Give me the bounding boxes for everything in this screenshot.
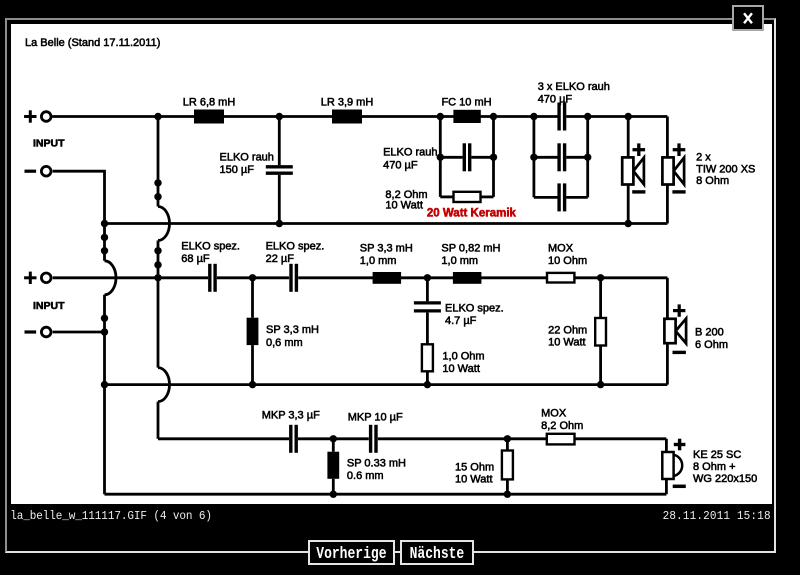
svg-text:MKP 10 µF: MKP 10 µF	[348, 412, 403, 424]
svg-text:LR 6,8 mH: LR 6,8 mH	[183, 97, 236, 109]
plus sign input2	[24, 272, 36, 284]
button Vorherige	[308, 540, 395, 566]
wire rail3 seg2	[217, 276, 289, 279]
wire 3xELKO mid branch right	[566, 156, 588, 159]
wire TIW1 top lead	[627, 117, 630, 158]
svg-text:SP 0,82 mH: SP 0,82 mH	[441, 243, 500, 255]
wire input2 plus to bus B	[53, 276, 158, 279]
capacitor ELKO spez 22uF	[291, 264, 296, 292]
junction rail2	[276, 220, 283, 227]
inductor SP 0,82 mH 1,0 mm	[453, 272, 482, 284]
capacitor ELKO spez 4.7uF	[414, 303, 441, 311]
minus sign TIW1	[632, 190, 645, 193]
wire input2 minus lead	[53, 331, 105, 334]
inductor LR 6,8 mH	[194, 110, 224, 124]
connector bus A	[101, 315, 108, 322]
svg-text:ELKO spez.: ELKO spez.	[445, 303, 504, 315]
capacitor 3xELKO bottom	[559, 183, 565, 211]
capacitor MKP 3,3uF	[291, 425, 296, 453]
junction rail3	[154, 274, 161, 281]
svg-text:FC 10 mH: FC 10 mH	[441, 97, 491, 109]
plus sign input1	[24, 110, 36, 122]
connector bus A	[101, 234, 108, 241]
wire rail1 right of 3xELKO cap	[566, 115, 667, 118]
speaker TIW1	[622, 157, 644, 184]
junction rail5	[330, 435, 337, 442]
junction rail4	[101, 381, 108, 388]
wire rail5 seg1	[158, 437, 289, 440]
wire FC right loop	[492, 117, 495, 197]
plus sign B200	[673, 304, 685, 316]
wire 3xELKO left rail	[533, 117, 536, 198]
svg-text:ELKO spez.: ELKO spez.	[266, 241, 325, 253]
wire bus A lower	[103, 295, 106, 494]
svg-text:6 Ohm: 6 Ohm	[695, 339, 728, 351]
junction rail4	[249, 381, 256, 388]
junction rail1	[530, 113, 537, 120]
wire 3xELKO bottom branch left	[534, 196, 558, 199]
wire 15ohm top lead	[506, 439, 509, 451]
connector bus B	[154, 179, 161, 186]
inductor SP 0.33 mH 0.6 mm	[327, 452, 339, 479]
wire TIW2 bottom lead	[666, 185, 669, 224]
junction rail2	[625, 220, 632, 227]
junction rail1	[154, 113, 161, 120]
wire 15ohm bottom lead	[506, 479, 509, 494]
wire bus B to rail5	[157, 402, 160, 439]
wire input1 minus to bus A	[53, 171, 105, 261]
wire B200 top lead	[666, 278, 669, 319]
svg-text:1,0 Ohm: 1,0 Ohm	[442, 351, 484, 363]
svg-text:INPUT: INPUT	[33, 138, 65, 150]
caption filename	[10, 511, 212, 523]
wire KE top lead	[665, 439, 668, 452]
svg-text:0,6 mm: 0,6 mm	[266, 337, 303, 349]
junction rail3	[424, 274, 431, 281]
resistor 1,0 Ohm 10 Watt	[422, 344, 433, 371]
svg-text:10 Watt: 10 Watt	[548, 337, 586, 349]
capacitor 3xELKO top	[559, 103, 565, 131]
minus sign input1	[25, 170, 37, 173]
plus sign TIW2	[673, 143, 686, 156]
resistor MOX 8,2 Ohm	[547, 434, 575, 445]
capacitor ELKO rauh 150uF	[266, 167, 293, 173]
junction mid branch	[490, 154, 497, 161]
wire 3xELKO right rail	[586, 117, 589, 198]
capacitor 3xELKO mid	[559, 143, 565, 171]
svg-text:SP 3,3 mH: SP 3,3 mH	[360, 243, 413, 255]
svg-text:ELKO spez.: ELKO spez.	[181, 241, 240, 253]
svg-text:22 Ohm: 22 Ohm	[548, 325, 587, 337]
junction rail1	[276, 113, 283, 120]
junction rail6	[504, 491, 511, 498]
wire 3xELKO bottom branch right	[566, 196, 588, 199]
wire 22ohm top lead	[599, 278, 602, 318]
wire ELKO150 branch top	[278, 117, 281, 166]
wire bus B upper	[157, 117, 160, 207]
connector bus B	[154, 261, 161, 268]
wire FC resistor branch left	[440, 195, 453, 198]
junction mid branch	[530, 154, 537, 161]
speaker B200	[664, 319, 686, 344]
wire rail4	[105, 383, 668, 386]
resistor MOX 10 Ohm	[547, 273, 574, 283]
wire KE bottom lead	[665, 479, 668, 494]
svg-text:MOX: MOX	[541, 408, 567, 420]
svg-text:10 Watt: 10 Watt	[442, 363, 480, 375]
svg-text:8,2 Ohm: 8,2 Ohm	[541, 420, 583, 432]
minus sign KE	[673, 485, 686, 489]
capacitor ELKO rauh 470uF	[464, 143, 469, 171]
wire rail6	[105, 493, 667, 496]
wire SP33-06 top lead	[251, 278, 254, 318]
svg-text:KE 25 SC: KE 25 SC	[693, 449, 741, 461]
terminal input2 plus	[41, 273, 51, 283]
junction rail3	[597, 274, 604, 281]
junction input2 minus	[101, 328, 108, 335]
wire FC left loop	[439, 117, 442, 197]
junction rail4	[597, 381, 604, 388]
svg-text:22 µF: 22 µF	[266, 253, 295, 265]
timestamp	[663, 511, 771, 523]
junction mid branch	[437, 154, 444, 161]
svg-text:1,0 mm: 1,0 mm	[441, 255, 478, 267]
wire TIW1 bottom lead	[627, 185, 630, 224]
junction rail6	[330, 491, 337, 498]
svg-text:470 µF: 470 µF	[383, 160, 418, 172]
wire B200 bottom lead	[666, 343, 669, 384]
minus sign B200	[673, 351, 686, 354]
junction rail3	[249, 274, 256, 281]
tweeter KE 25 SC	[662, 452, 682, 479]
svg-text:TIW 200 XS: TIW 200 XS	[696, 163, 755, 175]
wire SP033 bottom lead	[332, 479, 335, 494]
connector bus A	[101, 247, 108, 254]
junction rail1	[490, 113, 497, 120]
inductor SP 3,3 mH 1,0 mm	[373, 272, 402, 284]
close button X	[732, 5, 764, 31]
svg-text:ELKO rauh: ELKO rauh	[220, 152, 274, 164]
minus sign input2	[25, 330, 37, 333]
wire 3xELKO mid branch left	[534, 156, 558, 159]
svg-text:0.6 mm: 0.6 mm	[347, 470, 384, 482]
svg-text:470 µF: 470 µF	[538, 94, 573, 106]
svg-text:INPUT: INPUT	[33, 300, 65, 312]
svg-text:8 Ohm: 8 Ohm	[696, 175, 729, 187]
resistor 22 Ohm 10 Watt	[595, 318, 606, 346]
wire rail2	[105, 222, 668, 225]
junction rail5	[504, 435, 511, 442]
wire FC cap branch left	[440, 156, 462, 159]
inductor LR 3,9 mH	[332, 110, 362, 124]
svg-text:10 Watt: 10 Watt	[455, 474, 493, 486]
svg-text:4.7 µF: 4.7 µF	[445, 315, 477, 327]
svg-text:8 Ohm +: 8 Ohm +	[693, 461, 736, 473]
minus sign TIW2	[672, 190, 685, 193]
wire ELKO47 to 1ohm	[426, 313, 429, 345]
wire hop bus B over rail2	[158, 207, 170, 241]
wire 1ohm bottom lead	[426, 371, 429, 384]
wire ELKO150 branch bottom	[278, 175, 281, 224]
wire bus B middle	[157, 241, 160, 368]
svg-text:ELKO rauh: ELKO rauh	[383, 147, 437, 159]
wire hop bus A over rail3	[105, 261, 116, 295]
junction mid branch	[584, 154, 591, 161]
terminal input1 plus	[41, 112, 51, 122]
svg-text:3 x ELKO rauh: 3 x ELKO rauh	[538, 81, 610, 93]
wire rail1 input+ to 3xELKO	[52, 115, 557, 118]
wire 22ohm bottom lead	[599, 346, 602, 385]
junction rail1	[584, 113, 591, 120]
svg-text:150 µF: 150 µF	[220, 164, 255, 176]
capacitor ELKO spez 68uF	[210, 264, 215, 292]
wire ELKO47 top lead	[426, 278, 429, 302]
svg-text:B 200: B 200	[695, 327, 724, 339]
inductor SP 3,3 mH 0,6 mm	[247, 318, 259, 345]
terminal input2 minus	[41, 327, 51, 337]
resistor 15 Ohm 10 Watt	[502, 451, 513, 480]
wire SP33-06 bottom lead	[251, 345, 254, 385]
resistor 8,2 Ohm 10 Watt	[454, 192, 481, 202]
svg-text:SP 0.33 mH: SP 0.33 mH	[347, 458, 406, 470]
svg-text:La Belle (Stand 17.11.2011): La Belle (Stand 17.11.2011)	[25, 37, 160, 49]
svg-text:SP 3,3 mH: SP 3,3 mH	[266, 324, 319, 336]
junction rail2	[101, 220, 108, 227]
junction rail1	[625, 113, 632, 120]
svg-text:68 µF: 68 µF	[181, 253, 210, 265]
svg-text:1,0 mm: 1,0 mm	[360, 255, 397, 267]
plus sign TIW1	[633, 143, 646, 156]
wire rail3 seg1	[158, 276, 208, 279]
wire rail3 seg3	[298, 276, 667, 279]
wire rail5 seg2	[298, 437, 369, 440]
inductor FC 10 mH	[453, 110, 480, 123]
wire TIW2 top lead	[666, 117, 669, 158]
terminal input1 minus	[41, 166, 51, 176]
junction rail4	[424, 381, 431, 388]
svg-text:MOX: MOX	[548, 243, 574, 255]
button Naechste	[400, 540, 474, 566]
svg-text:LR 3,9 mH: LR 3,9 mH	[321, 97, 374, 109]
junction rail1	[437, 113, 444, 120]
svg-text:WG 220x150: WG 220x150	[693, 473, 757, 485]
svg-text:2 x: 2 x	[696, 152, 711, 164]
wire FC resistor branch right	[481, 195, 494, 198]
speaker TIW2	[662, 157, 684, 184]
wire SP033 top lead	[332, 439, 335, 452]
wire hop bus B over rail4	[158, 368, 170, 402]
connector bus B	[154, 247, 161, 254]
connector bus B	[154, 193, 161, 200]
plus sign KE	[674, 439, 686, 451]
svg-text:10 Watt: 10 Watt	[385, 200, 423, 212]
svg-text:20 Watt Keramik: 20 Watt Keramik	[427, 208, 517, 220]
svg-text:10 Ohm: 10 Ohm	[548, 255, 587, 267]
capacitor MKP 10uF	[371, 425, 376, 453]
wire rail5 seg3	[378, 437, 667, 440]
wire FC cap branch right	[471, 156, 493, 159]
svg-text:MKP 3,3 µF: MKP 3,3 µF	[262, 409, 320, 421]
svg-text:15 Ohm: 15 Ohm	[455, 461, 494, 473]
